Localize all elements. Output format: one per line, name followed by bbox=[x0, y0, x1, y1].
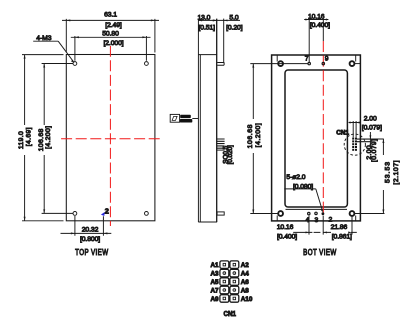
top view board outline bbox=[66, 55, 155, 221]
side view bottom edge bbox=[198, 221, 217, 223]
dim 2.00 vert arrows bbox=[369, 135, 371, 145]
svg-text:[0.800]: [0.800] bbox=[80, 236, 100, 243]
svg-text:A4: A4 bbox=[241, 271, 250, 278]
dim 50.80 line bbox=[71, 36, 151, 38]
dim 50.80 extension lines bbox=[75, 36, 146, 61]
dim 2.00 top line bbox=[349, 122, 361, 124]
svg-text:A10: A10 bbox=[241, 296, 253, 303]
svg-text:3: 3 bbox=[315, 217, 319, 224]
svg-text:[2.107]: [2.107] bbox=[393, 160, 400, 185]
hole row line top-left bbox=[250, 63, 308, 65]
dim 2.00 vert line bbox=[369, 132, 371, 147]
svg-text:[2.000]: [2.000] bbox=[103, 40, 123, 47]
callout 4-M3 leader bbox=[58, 41, 73, 62]
dim 119.0 extension lines bbox=[22, 55, 64, 221]
flatness flag note box bbox=[170, 114, 179, 122]
svg-text:2: 2 bbox=[105, 206, 109, 215]
pin 2 marker (blue) top view bbox=[101, 212, 105, 216]
svg-text:A6: A6 bbox=[241, 279, 250, 286]
dim 20.32 arrows bbox=[71, 232, 108, 234]
dim 106.68 line bbox=[43, 64, 45, 214]
svg-text:[0.079]: [0.079] bbox=[371, 139, 378, 162]
flatness flag symbol bbox=[172, 116, 177, 120]
svg-text:[4.200]: [4.200] bbox=[255, 123, 262, 148]
bot view board outline bbox=[272, 55, 361, 221]
svg-text:A3: A3 bbox=[210, 271, 219, 278]
svg-text:[4.69]: [4.69] bbox=[26, 127, 33, 146]
dim 53.53 arrows bbox=[382, 139, 384, 214]
callout 4-M3 leader arrow bbox=[71, 60, 74, 63]
svg-text:[0.400]: [0.400] bbox=[310, 22, 330, 29]
pin 9 bbox=[322, 62, 324, 64]
dim 106.68 arrows bbox=[43, 64, 45, 214]
dim 20.32 extension lines bbox=[75, 216, 104, 236]
bot screw hole top-left bbox=[278, 61, 283, 66]
bot view centerline (red) bbox=[322, 41, 324, 214]
side view top edge bbox=[198, 54, 217, 56]
callout leader bbox=[316, 189, 323, 211]
svg-text:5-ø2.0: 5-ø2.0 bbox=[286, 174, 305, 181]
side view bottom nub bbox=[217, 212, 224, 215]
svg-text:A9: A9 bbox=[210, 296, 219, 303]
corner stub bottom-right bbox=[355, 216, 357, 221]
dim 50.80 arrows bbox=[75, 36, 146, 38]
svg-text:10.16: 10.16 bbox=[308, 14, 325, 21]
flag note leader bbox=[192, 118, 198, 120]
svg-text:[2.49]: [2.49] bbox=[105, 22, 122, 29]
callout leader arrow bbox=[320, 209, 323, 213]
pin contact A8 bbox=[233, 289, 236, 292]
dim 21.86 bottom line bbox=[323, 231, 357, 233]
pin 7 bbox=[308, 62, 310, 64]
side view left edge (double) bbox=[198, 19, 200, 222]
side view top connector nub bbox=[217, 63, 224, 66]
dim 63.1 line bbox=[62, 19, 159, 21]
dim 10.16 top line bbox=[304, 19, 328, 21]
dim 106.68 (bot) line bbox=[252, 64, 254, 214]
hole top-right bbox=[145, 62, 149, 66]
callout underline bbox=[284, 188, 316, 190]
pin contact A4 bbox=[233, 272, 236, 275]
centerline horizontal (red) top view bbox=[59, 138, 162, 140]
hole top-left bbox=[73, 62, 77, 66]
side view pins stack bbox=[216, 139, 224, 148]
hole row line top-right bbox=[354, 63, 360, 65]
dim 53.53 line bbox=[382, 139, 384, 214]
dim 106.68 extension lines bbox=[42, 64, 74, 214]
svg-text:13.0: 13.0 bbox=[197, 14, 210, 21]
corner stub top-right bbox=[355, 55, 357, 62]
svg-text:BOT VIEW: BOT VIEW bbox=[303, 249, 336, 258]
pinout cell A8 bbox=[230, 286, 239, 294]
dim 53.53 ext top bbox=[357, 138, 384, 140]
pinout cell A3 bbox=[220, 269, 229, 277]
dim 13.0 line bbox=[198, 19, 216, 21]
svg-text:53.53: 53.53 bbox=[384, 161, 391, 183]
svg-text:9: 9 bbox=[325, 55, 329, 62]
dim 2.00 vert ext lines bbox=[357, 139, 372, 142]
bot screw hole top-right bbox=[350, 61, 355, 66]
svg-text:2: 2 bbox=[329, 217, 333, 224]
pin contact A7 bbox=[223, 289, 226, 292]
svg-text:[0.079]: [0.079] bbox=[362, 124, 382, 131]
bot screw hole bottom-right bbox=[350, 211, 355, 216]
side view board right edge bbox=[216, 19, 218, 222]
pin contact A6 bbox=[233, 280, 236, 283]
bot view inner shield outline bbox=[285, 70, 347, 207]
dim 63.1 arrows bbox=[66, 19, 155, 21]
svg-text:[0.861]: [0.861] bbox=[332, 234, 352, 241]
flag note text blob line1 bbox=[180, 115, 191, 118]
svg-text:2.00: 2.00 bbox=[364, 116, 377, 123]
svg-text:[4.200]: [4.200] bbox=[45, 126, 52, 149]
dim bottom ext lines bbox=[309, 215, 352, 234]
svg-text:50.80: 50.80 bbox=[102, 30, 119, 37]
pin contact A2 bbox=[233, 263, 236, 266]
hole bottom-right bbox=[145, 212, 149, 216]
svg-text:10.16: 10.16 bbox=[277, 224, 294, 231]
pin contact A5 bbox=[223, 280, 226, 283]
pin contact A9 bbox=[223, 297, 226, 300]
corner stub bottom-left bbox=[276, 216, 278, 221]
svg-text:20.32: 20.32 bbox=[82, 227, 99, 234]
side pins leader bbox=[216, 149, 224, 151]
pinout cell A4 bbox=[230, 269, 239, 277]
pinout cell A9 bbox=[220, 295, 229, 303]
dim 63.1 extension lines bbox=[66, 19, 155, 53]
svg-text:119.0: 119.0 bbox=[18, 131, 25, 149]
callout 4-M3 underline bbox=[33, 40, 58, 42]
dim 10.16 top extension lines bbox=[309, 18, 323, 62]
CN1 pins (2x5) bbox=[352, 138, 357, 151]
svg-text:106.68: 106.68 bbox=[38, 128, 45, 151]
svg-text:A7: A7 bbox=[210, 287, 219, 294]
svg-text:CN1: CN1 bbox=[336, 129, 349, 136]
dim 2.00 top arrows bbox=[350, 122, 360, 124]
svg-text:A1: A1 bbox=[210, 262, 219, 269]
dim 119.0 line bbox=[24, 55, 26, 221]
pin contact A10 bbox=[233, 297, 236, 300]
svg-text:A8: A8 bbox=[241, 287, 250, 294]
svg-text:CN1: CN1 bbox=[223, 311, 236, 318]
svg-text:63.1: 63.1 bbox=[104, 12, 117, 19]
pin 3 bbox=[315, 212, 317, 214]
side view top connector bbox=[223, 19, 225, 63]
svg-text:7: 7 bbox=[305, 56, 309, 63]
dim 10.16 bottom line bbox=[293, 231, 320, 233]
pin contact A1 bbox=[223, 263, 226, 266]
hole row line bottom-right (53.53 ext) bbox=[354, 213, 384, 215]
svg-text:106.68: 106.68 bbox=[247, 124, 254, 148]
svg-text:[0.020]: [0.020] bbox=[227, 145, 234, 165]
flag note text blob line2 bbox=[180, 119, 192, 123]
CN1 dashed circle bbox=[344, 134, 365, 155]
dim 2.00 top ext lines bbox=[353, 121, 356, 137]
pinout cell A6 bbox=[230, 278, 239, 286]
pinout cell A7 bbox=[220, 286, 229, 294]
pin contact A3 bbox=[223, 272, 226, 275]
svg-text:[0.51]: [0.51] bbox=[198, 24, 215, 31]
pin 2 (filled) bbox=[322, 212, 325, 215]
bot view inner second line bbox=[286, 208, 348, 210]
svg-text:A5: A5 bbox=[210, 279, 219, 286]
dim 20.32 line bbox=[61, 232, 112, 234]
svg-text:A2: A2 bbox=[241, 262, 250, 269]
svg-text:21.86: 21.86 bbox=[331, 224, 348, 231]
hole bottom-left bbox=[73, 212, 77, 216]
pinout cell A2 bbox=[230, 261, 239, 269]
svg-text:[0.400]: [0.400] bbox=[277, 234, 297, 241]
dim 5.0 line bbox=[217, 19, 240, 21]
svg-text:TOP VIEW: TOP VIEW bbox=[75, 249, 108, 258]
bot screw hole bottom-left bbox=[278, 211, 283, 216]
pin 4 bbox=[308, 212, 310, 214]
pinout cell A10 bbox=[230, 295, 239, 303]
dim bottom arrows bbox=[306, 231, 353, 233]
dim 5.0 arrows bbox=[213, 19, 227, 21]
svg-text:5.0: 5.0 bbox=[229, 14, 238, 21]
centerline vertical (red) top view bbox=[109, 46, 111, 226]
dim 106.68 (bot) arrows bbox=[252, 64, 254, 214]
hole row line bottom-left bbox=[250, 213, 278, 215]
dim 10.16 top arrows bbox=[305, 19, 327, 21]
dim 119.0 arrows bbox=[24, 55, 26, 221]
corner stub top-left bbox=[276, 55, 278, 62]
pinout cell A1 bbox=[220, 261, 229, 269]
pinout cell A5 bbox=[220, 278, 229, 286]
svg-text:[0.20]: [0.20] bbox=[226, 24, 243, 31]
